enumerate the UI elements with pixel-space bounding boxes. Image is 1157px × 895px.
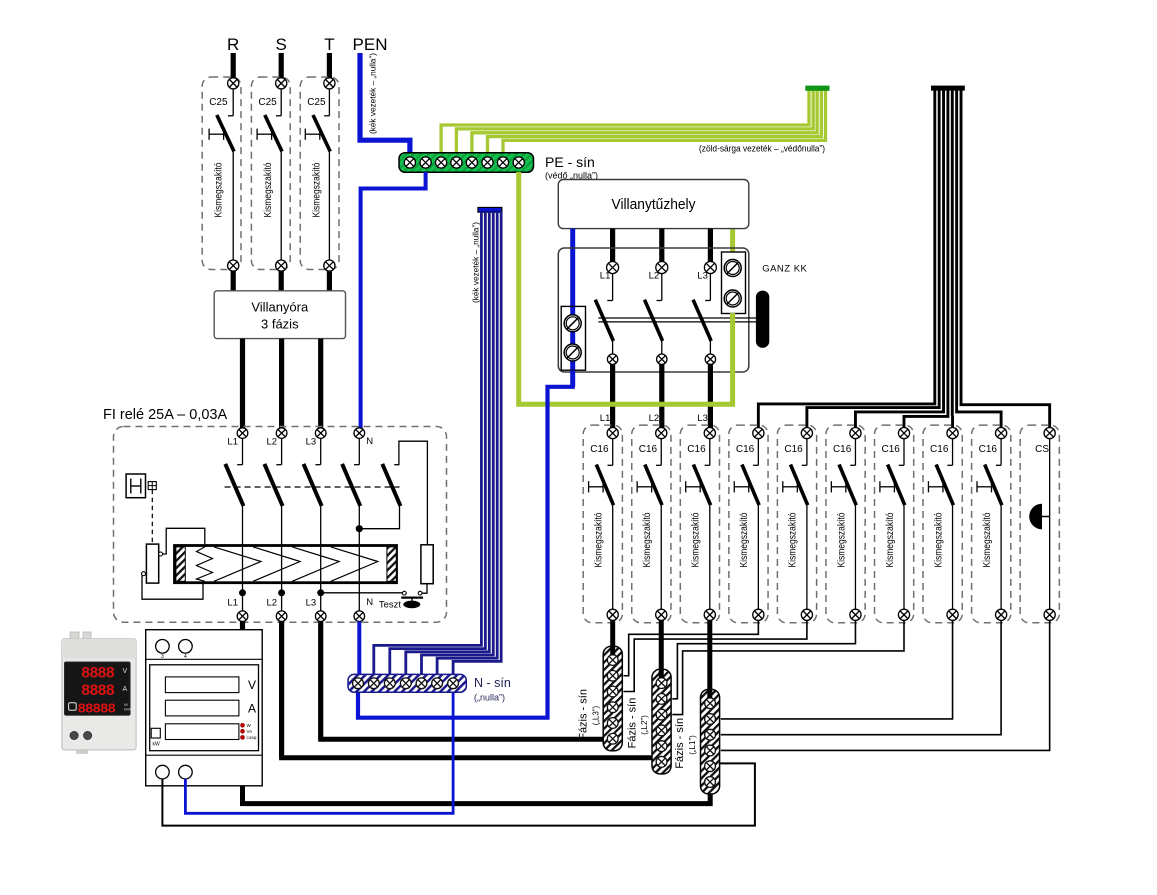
svg-text:C16: C16 [687, 444, 706, 455]
svg-text:C16: C16 [784, 444, 803, 455]
svg-text:Kismegszakító: Kismegszakító [594, 512, 605, 567]
svg-text:L2: L2 [649, 271, 660, 282]
svg-text:V: V [123, 668, 128, 675]
svg-text:C16: C16 [979, 444, 998, 455]
svg-text:C25: C25 [258, 97, 277, 108]
svg-text:Villanyóra: Villanyóra [251, 300, 309, 315]
svg-text:Fázis - sín: Fázis - sín [626, 698, 638, 749]
svg-text:(„L2”): („L2”) [640, 715, 649, 735]
svg-text:N - sín: N - sín [474, 676, 511, 690]
svg-text:(„nulla”): („nulla”) [474, 693, 505, 703]
svg-text:T: T [324, 35, 334, 54]
svg-text:Kismegszakító: Kismegszakító [788, 512, 799, 567]
svg-text:L3: L3 [306, 437, 317, 448]
svg-text:kWh: kWh [124, 707, 132, 712]
svg-text:L3: L3 [697, 271, 708, 282]
svg-text:Kismegszakító: Kismegszakító [982, 512, 993, 567]
svg-text:PE - sín: PE - sín [545, 154, 595, 170]
svg-text:(zöld-sárga vezeték – „védőnul: (zöld-sárga vezeték – „védőnulla”) [699, 144, 825, 154]
svg-text:PEN: PEN [353, 35, 388, 54]
svg-text:L3: L3 [306, 598, 317, 609]
svg-text:8888: 8888 [81, 682, 115, 700]
svg-text:CS: CS [1035, 444, 1049, 455]
svg-text:S: S [276, 35, 287, 54]
svg-text:Kismegszakító: Kismegszakító [312, 162, 323, 217]
svg-text:(kék vezeték – „nulla”): (kék vezeték – „nulla”) [471, 222, 481, 303]
svg-text:GANZ KK: GANZ KK [762, 264, 807, 275]
svg-text:Fázis - sín: Fázis - sín [674, 718, 686, 769]
svg-text:Kismegszakító: Kismegszakító [214, 162, 225, 217]
svg-text:L1: L1 [227, 598, 238, 609]
svg-text:(„L3”): („L3”) [591, 705, 600, 725]
svg-text:A: A [123, 686, 128, 693]
svg-text:(„L1”): („L1”) [688, 735, 697, 755]
svg-text:A: A [248, 702, 256, 716]
svg-text:FI relé 25A – 0,03A: FI relé 25A – 0,03A [103, 407, 227, 423]
svg-text:C16: C16 [882, 444, 901, 455]
svg-text:Kismegszakító: Kismegszakító [642, 512, 653, 567]
svg-text:L3: L3 [697, 413, 708, 424]
svg-text:Kismegszakító: Kismegszakító [836, 512, 847, 567]
svg-text:8888: 8888 [81, 665, 115, 683]
svg-text:VA: VA [247, 729, 253, 734]
svg-text:Kismegszakító: Kismegszakító [739, 512, 750, 567]
svg-text:L1: L1 [600, 413, 611, 424]
svg-text:Kismegszakító: Kismegszakító [933, 512, 944, 567]
svg-text:Teszt: Teszt [379, 600, 402, 611]
svg-text:C16: C16 [590, 444, 609, 455]
svg-text:C25: C25 [209, 97, 228, 108]
svg-text:C16: C16 [736, 444, 755, 455]
svg-text:L1: L1 [227, 437, 238, 448]
svg-text:L2: L2 [267, 437, 278, 448]
svg-text:C16: C16 [930, 444, 949, 455]
svg-text:cosφ: cosφ [247, 735, 257, 740]
svg-text:C25: C25 [307, 97, 326, 108]
svg-text:N: N [366, 597, 373, 608]
svg-text:Kismegszakító: Kismegszakító [263, 162, 274, 217]
svg-text:N: N [366, 436, 373, 447]
svg-text:3 fázis: 3 fázis [261, 317, 299, 332]
svg-text:R: R [227, 35, 239, 54]
svg-text:3: 3 [161, 654, 164, 660]
svg-text:Fázis - sín: Fázis - sín [577, 689, 589, 740]
svg-text:(kék vezeték – „nulla”): (kék vezeték – „nulla”) [368, 53, 378, 134]
svg-text:L2: L2 [267, 598, 278, 609]
svg-text:Kismegszakító: Kismegszakító [691, 512, 702, 567]
svg-text:Kismegszakító: Kismegszakító [885, 512, 896, 567]
svg-text:Villanytűzhely: Villanytűzhely [612, 197, 697, 213]
svg-text:L2: L2 [649, 413, 660, 424]
svg-text:V: V [248, 678, 256, 692]
svg-text:L1: L1 [600, 271, 611, 282]
svg-text:C16: C16 [833, 444, 852, 455]
svg-text:4: 4 [184, 654, 187, 660]
svg-text:kW: kW [153, 742, 161, 748]
svg-text:88888: 88888 [78, 702, 116, 718]
svg-text:C16: C16 [639, 444, 658, 455]
